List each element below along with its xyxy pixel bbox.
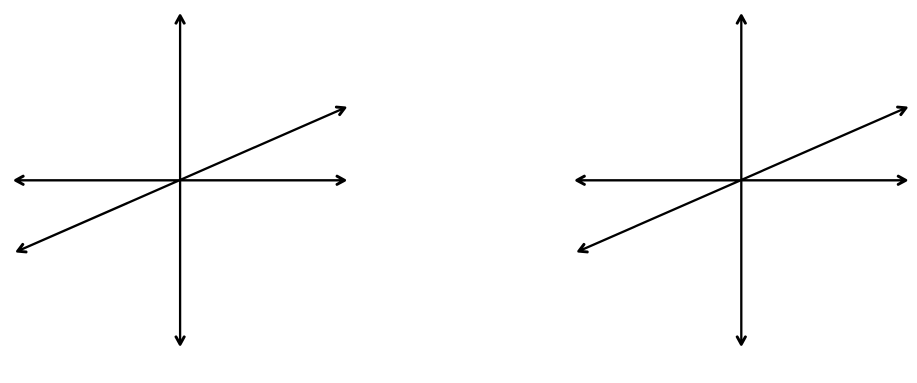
left graph y-axis: [176, 16, 184, 345]
left graph line through origin: [18, 107, 345, 252]
left graph x-axis: [16, 176, 345, 184]
right graph line through origin: [579, 107, 906, 252]
right graph x-axis: [577, 176, 906, 184]
right graph y-axis: [737, 16, 745, 345]
